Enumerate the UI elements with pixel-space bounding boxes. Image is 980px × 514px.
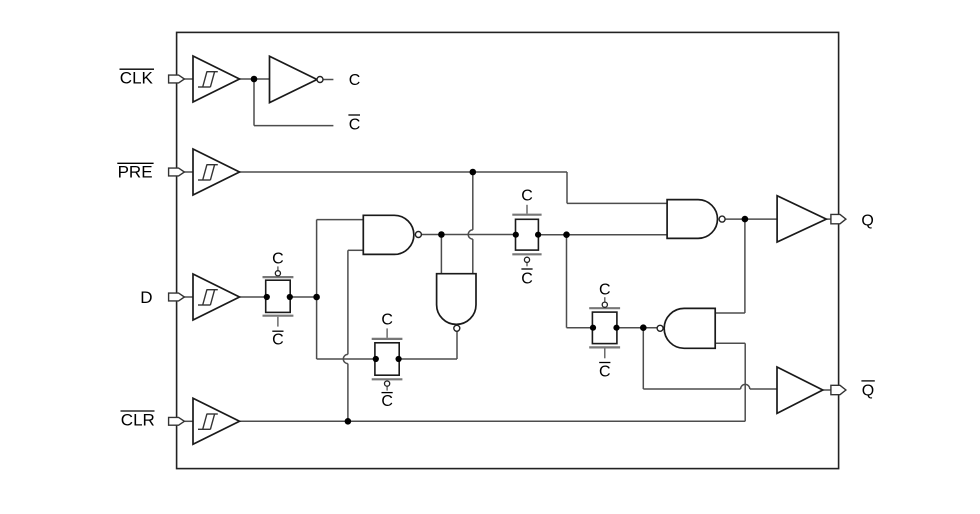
svg-text:Q: Q [862, 382, 874, 399]
svg-text:D: D [140, 288, 152, 307]
svg-text:Q: Q [861, 212, 873, 229]
svg-text:C: C [381, 393, 393, 410]
svg-text:C: C [381, 312, 393, 329]
svg-text:C: C [272, 250, 284, 267]
svg-text:C: C [521, 188, 533, 205]
svg-text:C: C [521, 270, 533, 287]
svg-text:C: C [349, 117, 361, 134]
svg-text:PRE: PRE [118, 163, 153, 182]
svg-text:CLK: CLK [120, 69, 154, 88]
svg-text:C: C [599, 364, 611, 381]
svg-text:C: C [349, 72, 361, 89]
svg-text:C: C [599, 282, 611, 299]
svg-text:C: C [272, 332, 284, 349]
svg-text:CLR: CLR [121, 410, 155, 429]
